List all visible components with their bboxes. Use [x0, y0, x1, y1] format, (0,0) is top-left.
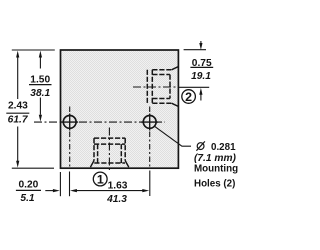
svg-text:2.43: 2.43 — [8, 101, 28, 112]
fraction bar 0.75 — [190, 66, 213, 68]
svg-text:5.1: 5.1 — [20, 193, 34, 204]
svg-text:0.281: 0.281 — [211, 142, 236, 153]
svg-text:38.1: 38.1 — [30, 88, 50, 99]
svg-text:0.75: 0.75 — [192, 58, 212, 69]
svg-text:(7.1 mm): (7.1 mm) — [194, 153, 237, 164]
svg-text:1: 1 — [97, 173, 104, 187]
connector 1 flares — [90, 161, 128, 168]
svg-text:61.7: 61.7 — [8, 115, 29, 126]
svg-text:2: 2 — [185, 90, 192, 104]
arrowhead down 1.50 — [39, 115, 42, 122]
extension line top-left — [12, 49, 55, 51]
svg-text:1.50: 1.50 — [30, 75, 50, 86]
dimension 0.75 line — [200, 41, 202, 101]
hole 1 extension line below — [69, 172, 71, 197]
hole 1 vertical centerline — [69, 107, 71, 168]
arrowhead down 0.75 top — [199, 43, 202, 50]
dimension 1.50 line — [39, 57, 41, 115]
dimension 0.20 arrow line — [45, 190, 53, 192]
arrowhead right 0.20 — [53, 189, 60, 192]
leader line to note — [154, 126, 191, 146]
connector 1 outline (bottom, hidden lines) — [94, 138, 125, 163]
arrowhead up 0.75 bottom — [199, 88, 202, 95]
extension line bottom-left — [12, 167, 54, 169]
arrowhead up 1.50 — [39, 51, 42, 58]
circled 2 balloon — [182, 90, 196, 104]
circled 1 balloon — [93, 172, 107, 186]
connector 2 outline (right, hidden lines) — [147, 70, 172, 104]
arrowhead down 2.43 — [16, 161, 19, 168]
extension line right at connector 2 centerline — [178, 86, 209, 88]
connector 2 centerline — [133, 86, 178, 88]
connector 2 flares — [172, 67, 178, 107]
connector 1 centerline — [108, 128, 110, 173]
hole 2 vertical centerline — [149, 107, 151, 168]
svg-text:Holes (2): Holes (2) — [194, 178, 235, 189]
mounting hole 1 — [61, 114, 78, 131]
svg-text:0.20: 0.20 — [18, 180, 38, 191]
fraction bar 1.50 — [29, 84, 52, 86]
holes horizontal centerline — [34, 121, 165, 123]
extension line top-right — [184, 49, 206, 51]
arrowhead left 1.63 — [70, 189, 77, 192]
svg-text:Mounting: Mounting — [194, 164, 238, 175]
body outline — [61, 50, 179, 168]
arrowhead right 1.63 — [142, 189, 149, 192]
hole 2 extension line below — [149, 171, 151, 197]
svg-text:41.3: 41.3 — [106, 194, 127, 205]
diameter symbol — [197, 143, 204, 150]
fraction bar 0.20 — [16, 189, 41, 191]
extension line body left edge below — [59, 172, 61, 196]
svg-text:19.1: 19.1 — [191, 71, 211, 82]
fraction bar 2.43 — [6, 112, 29, 114]
dimension 2.43 line — [17, 57, 19, 162]
dimension 1.63 line — [76, 190, 143, 192]
arrowhead up 2.43 — [16, 51, 19, 58]
mounting hole 2 — [141, 114, 158, 131]
svg-text:1.63: 1.63 — [108, 180, 128, 191]
